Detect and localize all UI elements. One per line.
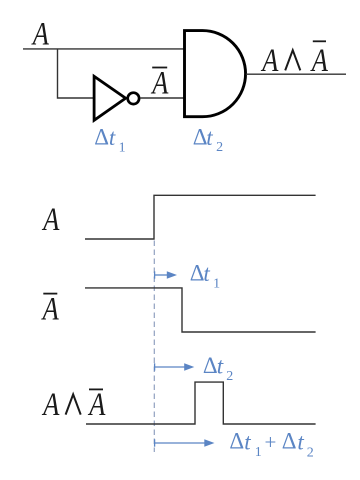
svg-text:+: + (265, 430, 277, 454)
wire branch down from A to inverter (58, 49, 95, 98)
svg-text:A: A (260, 42, 279, 78)
overbar (89, 388, 103, 390)
svg-text:t: t (203, 261, 210, 286)
waveform A and A-bar (glitch pulse) (86, 382, 316, 424)
svg-text:Δ: Δ (282, 429, 297, 454)
svg-text:2: 2 (307, 446, 314, 461)
svg-text:Δ: Δ (203, 353, 218, 378)
svg-text:A: A (310, 42, 329, 78)
signal label A-bar overbar (43, 293, 57, 295)
dt1 arrow label (190, 261, 220, 292)
wire inverter output to AND gate (140, 97, 184, 99)
svg-text:2: 2 (226, 369, 233, 384)
dt1+dt2 arrow label (229, 429, 313, 461)
svg-text:t: t (109, 125, 116, 150)
output wire (246, 73, 346, 75)
node A-bar overbar (152, 67, 167, 69)
svg-text:Δ: Δ (190, 261, 205, 286)
svg-text:1: 1 (119, 140, 126, 155)
inverter bubble (128, 93, 139, 104)
AND gate U2 (185, 31, 246, 117)
dt2 arrow label (203, 353, 233, 384)
svg-text:t: t (206, 125, 213, 150)
dt2 arrow (155, 363, 195, 371)
dt1+dt2 arrow (155, 439, 215, 447)
svg-text:Δ: Δ (193, 124, 208, 149)
svg-text:Δ: Δ (229, 429, 244, 454)
waveform A (85, 195, 316, 239)
inverter U1 (NOT gate triangle) (94, 76, 126, 120)
wire A (input net) (23, 48, 185, 50)
dt1 arrow (155, 271, 177, 279)
svg-text:A: A (151, 65, 170, 101)
dashed reference line at rise of A (153, 241, 155, 453)
svg-text:A: A (42, 386, 61, 422)
delay label dt1 under inverter (94, 124, 125, 155)
svg-text:t: t (244, 429, 251, 454)
output label: overbar of A-bar (313, 40, 326, 42)
svg-text:A: A (31, 16, 50, 52)
output label: wedge symbol (285, 50, 300, 70)
svg-text:A: A (88, 386, 107, 422)
svg-text:A: A (41, 291, 60, 327)
svg-text:1: 1 (213, 277, 220, 292)
svg-text:2: 2 (216, 140, 223, 155)
svg-text:t: t (297, 429, 304, 454)
svg-text:t: t (217, 354, 224, 379)
delay label dt2 under AND gate (193, 124, 223, 155)
svg-text:Δ: Δ (94, 124, 109, 149)
waveform A-bar (85, 288, 316, 332)
svg-text:A: A (42, 201, 61, 237)
svg-text:1: 1 (255, 445, 262, 460)
wedge symbol (66, 394, 81, 414)
